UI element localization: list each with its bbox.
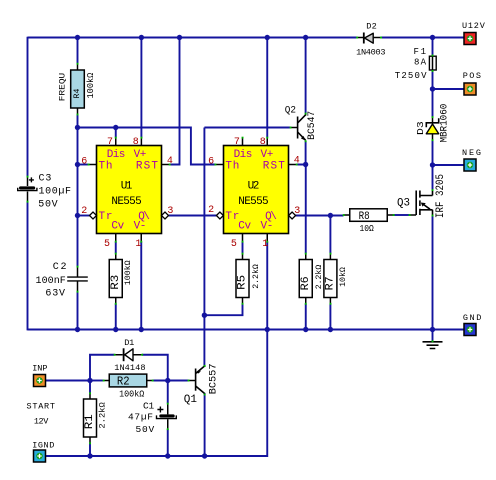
svg-text:4: 4 bbox=[167, 156, 173, 167]
svg-text:U1: U1 bbox=[121, 181, 133, 193]
resistor R8 bbox=[350, 209, 388, 222]
svg-text:C3: C3 bbox=[39, 173, 52, 184]
wire U1 Q\ to U2 Tr bbox=[168, 215, 216, 217]
svg-text:47µF: 47µF bbox=[128, 412, 153, 423]
svg-text:5: 5 bbox=[104, 239, 110, 250]
junction (141.25,329.5) bbox=[139, 327, 144, 332]
svg-text:Tr: Tr bbox=[225, 211, 239, 223]
pin diamond U2 Tr bbox=[216, 212, 223, 219]
svg-text:1: 1 bbox=[262, 239, 268, 250]
wire POS bbox=[433, 88, 464, 90]
svg-text:2: 2 bbox=[81, 206, 87, 217]
junction (305.6,37.5) bbox=[303, 35, 308, 40]
capacitor C2 leads bbox=[77, 267, 79, 292]
green connection pixels bbox=[27, 37, 434, 445]
wire D1 loop bbox=[90, 355, 168, 381]
wire Q2 base bbox=[204, 127, 290, 129]
wire U2 Q\ to R8 bbox=[296, 215, 344, 217]
labels: diodes/fuse bbox=[114, 21, 385, 372]
svg-text:12V: 12V bbox=[34, 416, 49, 426]
connector GND bbox=[464, 324, 476, 336]
svg-text:4: 4 bbox=[294, 155, 300, 166]
capacitor C3 leads bbox=[27, 177, 29, 202]
transistor Q3 gate lead bbox=[410, 214, 417, 216]
svg-text:IRF 3205: IRF 3205 bbox=[435, 174, 447, 218]
transistor Q1 leads bbox=[189, 380, 196, 382]
resistor R4 leads bbox=[77, 64, 79, 115]
wire top bus left of D2 bbox=[28, 37, 358, 39]
junction (77.5,37.5) bbox=[75, 35, 80, 40]
ic U2 NE555 body bbox=[224, 146, 289, 234]
svg-text:R2: R2 bbox=[117, 374, 130, 388]
wire R1 bbox=[89, 381, 91, 457]
svg-text:U12V: U12V bbox=[462, 21, 486, 31]
junction (90,380.5) bbox=[87, 378, 92, 383]
junction (204.4,315.2) bbox=[202, 313, 207, 318]
svg-text:8: 8 bbox=[260, 137, 266, 148]
capacitor C1 leads bbox=[167, 404, 169, 430]
resistor R1 bbox=[84, 399, 97, 437]
wire R7 bbox=[329, 216, 331, 330]
svg-text:D3: D3 bbox=[415, 121, 426, 135]
wire Q2 emitter to U2 RST node bbox=[297, 141, 306, 165]
svg-text:V-: V- bbox=[261, 220, 274, 232]
wire INP to node bbox=[40, 380, 90, 382]
svg-text:3: 3 bbox=[167, 206, 173, 217]
ic U1 pin stubs bbox=[89, 138, 170, 242]
svg-text:NE555: NE555 bbox=[111, 196, 141, 208]
junction (305.75,329.5) bbox=[303, 327, 308, 332]
svg-text:C2: C2 bbox=[53, 262, 67, 273]
wire U1 V- bbox=[140, 242, 142, 330]
ic U1 NE555 body bbox=[97, 146, 162, 234]
junction (77.5,127.5) bbox=[75, 125, 80, 130]
junction (330.4,215.5) bbox=[328, 213, 333, 218]
wire Q1 collector bbox=[204, 393, 206, 456]
svg-text:10kΩ: 10kΩ bbox=[338, 267, 348, 287]
svg-text:6: 6 bbox=[208, 157, 214, 168]
resistor R8 leads bbox=[344, 214, 394, 216]
wire Q2 collector bbox=[305, 38, 307, 114]
svg-text:1N4148: 1N4148 bbox=[114, 363, 145, 373]
svg-text:BC557: BC557 bbox=[208, 364, 219, 395]
resistor R5 leads bbox=[242, 254, 244, 304]
wire R2 right to Q1 base bbox=[153, 380, 189, 382]
svg-text:100kΩ: 100kΩ bbox=[119, 389, 145, 399]
svg-text:Th: Th bbox=[225, 161, 239, 173]
svg-text:D2: D2 bbox=[366, 21, 377, 31]
connector POS bbox=[464, 83, 476, 95]
svg-text:POS: POS bbox=[463, 71, 481, 81]
svg-text:100kΩ: 100kΩ bbox=[86, 72, 96, 98]
transistor Q3 IRF3205 (n-mosfet) bbox=[416, 190, 432, 216]
svg-text:BC547: BC547 bbox=[307, 111, 318, 140]
svg-text:2: 2 bbox=[208, 205, 214, 216]
svg-text:R6: R6 bbox=[300, 276, 312, 290]
wire U1 Dis bbox=[115, 128, 117, 138]
ic U2 pin stubs bbox=[215, 138, 296, 242]
wire U1 V+ bbox=[140, 38, 142, 138]
svg-text:100nF: 100nF bbox=[36, 276, 66, 287]
svg-text:2.2kΩ: 2.2kΩ bbox=[98, 402, 108, 428]
svg-text:Th: Th bbox=[99, 161, 113, 173]
svg-text:F 1: F 1 bbox=[414, 47, 427, 57]
resistor R4 (100k FREQU, cyan) bbox=[71, 70, 85, 108]
wire U12V stub bbox=[40, 38, 470, 381]
svg-text:50V: 50V bbox=[38, 200, 57, 211]
svg-text:R8: R8 bbox=[359, 211, 370, 223]
resistor R6 bbox=[299, 260, 312, 298]
wire NEG bbox=[433, 164, 464, 166]
resistor R7 bbox=[324, 260, 337, 298]
junction (167.75,380.5) bbox=[165, 378, 170, 383]
svg-text:R7: R7 bbox=[325, 276, 337, 290]
svg-text:63V: 63V bbox=[45, 288, 65, 299]
junction (115.75,127.5) bbox=[113, 125, 118, 130]
svg-text:3: 3 bbox=[294, 206, 300, 217]
svg-text:2.2kΩ: 2.2kΩ bbox=[314, 265, 324, 290]
wire Q2-base/R5/Q1-emitter rail x204.4 bbox=[203, 128, 205, 367]
resistor R3 bbox=[109, 260, 122, 298]
svg-text:R3: R3 bbox=[110, 275, 122, 290]
diode D1 leads bbox=[115, 354, 143, 356]
svg-text:V+: V+ bbox=[134, 149, 147, 161]
capacitor C3 plates (polarized) bbox=[18, 177, 37, 190]
svg-text:1N4003: 1N4003 bbox=[356, 48, 385, 58]
resistor R5 bbox=[236, 260, 249, 298]
svg-text:RST: RST bbox=[263, 161, 285, 173]
junction (267.25,329.5) bbox=[265, 327, 270, 332]
svg-text:INP: INP bbox=[32, 363, 47, 373]
labels: capacitors bbox=[36, 173, 155, 435]
wire U2 Cv to R5 bbox=[242, 242, 244, 254]
labels: U2 bbox=[208, 137, 300, 250]
svg-text:GND: GND bbox=[463, 313, 481, 323]
resistor R2 (100k, cyan) bbox=[109, 374, 147, 387]
svg-text:FREQU: FREQU bbox=[58, 73, 67, 102]
resistor R3 leads bbox=[115, 254, 117, 304]
wire IGND bus bbox=[47, 330, 268, 457]
transistor Q2 BC547 (npn) bbox=[298, 114, 306, 141]
junction (267.25,37.5) bbox=[265, 35, 270, 40]
svg-text:D1: D1 bbox=[124, 338, 134, 348]
junction (90,456) bbox=[87, 453, 92, 458]
svg-text:Q2: Q2 bbox=[285, 105, 296, 116]
svg-text:RST: RST bbox=[136, 161, 158, 173]
component lead stubs (black) bbox=[28, 38, 433, 444]
diode D1 1N4148 bbox=[124, 348, 133, 361]
junction (77.5,164.5) bbox=[75, 162, 80, 167]
svg-text:Dis: Dis bbox=[107, 149, 126, 161]
wire R5 bottom jog bbox=[204, 304, 242, 316]
wire C1 bbox=[167, 381, 169, 457]
wire IGND stub bbox=[40, 455, 47, 457]
capacitor C2 plates bbox=[67, 277, 88, 281]
svg-text:R1: R1 bbox=[84, 414, 96, 429]
svg-text:V+: V+ bbox=[261, 149, 274, 161]
junction (179.5,37.5) bbox=[177, 35, 182, 40]
junction (432.5,37.5) bbox=[430, 35, 435, 40]
svg-text:R5: R5 bbox=[237, 275, 249, 290]
resistor R7 leads bbox=[329, 254, 331, 304]
junction (77.5,329.5) bbox=[75, 327, 80, 332]
svg-text:100kΩ: 100kΩ bbox=[123, 260, 133, 285]
wire gnd symbol stub bbox=[432, 330, 434, 342]
wire U2 V- bbox=[266, 242, 268, 330]
svg-text:7: 7 bbox=[107, 137, 113, 148]
diode D3 leads bbox=[432, 117, 434, 140]
diode D2 1N4003 (points left) bbox=[364, 33, 373, 44]
wire top bus right of D2 bbox=[381, 37, 464, 39]
connector IGND bbox=[34, 450, 46, 462]
pin diamond U2 Q\ bbox=[289, 212, 296, 219]
connector U12V bbox=[464, 33, 476, 45]
svg-text:1: 1 bbox=[135, 239, 141, 250]
junction (432.5,89) bbox=[430, 86, 435, 91]
wire ground bus bbox=[28, 329, 464, 331]
pin diamond U1 Tr bbox=[90, 212, 97, 219]
svg-text:Dis: Dis bbox=[234, 149, 253, 161]
junction (432.5,165) bbox=[430, 162, 435, 167]
junction (141.4,37.5) bbox=[139, 35, 144, 40]
svg-text:6: 6 bbox=[81, 157, 87, 168]
resistor R1 leads bbox=[89, 393, 91, 443]
connector NEG bbox=[464, 159, 476, 171]
wire R2 left bbox=[90, 380, 104, 382]
fuse F1 bbox=[429, 56, 436, 70]
svg-text:C1: C1 bbox=[143, 401, 155, 412]
junction (77.5,215.5) bbox=[75, 213, 80, 218]
svg-text:T250V: T250V bbox=[395, 71, 427, 81]
junction (167.75,456) bbox=[165, 453, 170, 458]
svg-text:Tr: Tr bbox=[99, 211, 113, 223]
resistor R2 leads bbox=[104, 380, 153, 382]
connector INP bbox=[34, 375, 46, 387]
wire U1 Th bbox=[78, 164, 89, 166]
junction (305.6,164.5) bbox=[303, 162, 308, 167]
svg-text:8A: 8A bbox=[414, 57, 427, 67]
wire U1 RST to top bus bbox=[170, 38, 180, 165]
svg-text:Q3: Q3 bbox=[397, 197, 410, 209]
svg-text:Cv: Cv bbox=[238, 220, 251, 232]
svg-text:NE555: NE555 bbox=[238, 196, 268, 208]
svg-text:10Ω: 10Ω bbox=[360, 224, 375, 234]
svg-text:8: 8 bbox=[133, 137, 139, 148]
junction (204.6,456) bbox=[202, 453, 207, 458]
svg-text:IGND: IGND bbox=[32, 440, 54, 450]
diode D2 leads bbox=[357, 37, 381, 39]
transistor Q1 BC557 (pnp) bbox=[196, 366, 205, 394]
diode D3 MBR1060 (points up, schottky) bbox=[426, 118, 438, 134]
junction (432.5,329.5) bbox=[430, 327, 435, 332]
svg-text:7: 7 bbox=[234, 137, 240, 148]
wire R8 to Q3 gate bbox=[394, 214, 410, 216]
labels: U1 bbox=[81, 137, 173, 250]
svg-text:U2: U2 bbox=[248, 181, 260, 193]
resistor R6 leads bbox=[305, 254, 307, 304]
svg-text:Cv: Cv bbox=[111, 220, 124, 232]
svg-text:START: START bbox=[27, 401, 56, 411]
transistor Q2 leads bbox=[291, 127, 298, 129]
wire Dis node to U2 Th bbox=[78, 128, 216, 165]
wire R6 bbox=[305, 165, 307, 330]
svg-text:Q1: Q1 bbox=[184, 394, 198, 406]
wire U1 Cv to R3 bbox=[115, 242, 117, 330]
junction (330.4,329.5) bbox=[328, 327, 333, 332]
svg-text:50V: 50V bbox=[136, 424, 155, 435]
junction (115.75,329.5) bbox=[113, 327, 118, 332]
wire right rail x432.5 bbox=[432, 38, 434, 330]
svg-text:MBR1060: MBR1060 bbox=[438, 104, 450, 143]
wire U2 V+ bbox=[266, 38, 268, 138]
wire R4/Th/Tr rail x77.5 bbox=[77, 38, 79, 330]
svg-text:2.2kΩ: 2.2kΩ bbox=[251, 264, 261, 289]
wire left bus bbox=[27, 37, 29, 331]
svg-text:V-: V- bbox=[134, 220, 147, 232]
ground symbol bbox=[423, 342, 443, 349]
svg-text:NEG: NEG bbox=[462, 148, 481, 158]
capacitor C1 plates (polarized) bbox=[157, 407, 177, 419]
svg-text:5: 5 bbox=[231, 239, 237, 250]
pin diamond U1 Q\ bbox=[162, 212, 169, 219]
svg-text:100µF: 100µF bbox=[39, 186, 72, 197]
wire U1 Tr bbox=[78, 215, 90, 217]
svg-text:R4: R4 bbox=[73, 89, 82, 99]
